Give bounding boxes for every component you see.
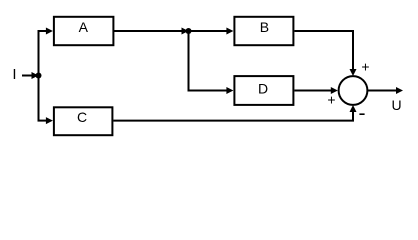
arrowhead into block D (226, 87, 233, 94)
wire block D output to summing junction left (294, 90, 332, 92)
arrowhead into block B (226, 28, 233, 35)
arrowhead into node J1 (32, 72, 39, 79)
node J2 junction dot (186, 28, 192, 34)
svg-text:+: + (361, 59, 369, 75)
wire block A output to node J2 (114, 30, 183, 32)
svg-text:A: A (79, 19, 89, 35)
wire vertical trunk from J1 up and down (38, 31, 40, 121)
svg-text:C: C (77, 109, 87, 125)
arrowhead into summing junction left (331, 87, 338, 94)
arrowhead into block A (46, 28, 53, 35)
wire summing junction to output U (368, 90, 397, 92)
arrowhead output (396, 87, 403, 94)
block D (234, 76, 293, 105)
wire input I to node J1 (22, 75, 33, 77)
svg-text:+: + (327, 92, 335, 108)
wire J1 to block A (38, 30, 48, 32)
block C (54, 107, 113, 135)
svg-text:I: I (12, 66, 16, 83)
arrowhead into block C (46, 117, 53, 124)
node J1 junction dot (36, 73, 42, 79)
wire block C output along bottom and up to summing junction (113, 111, 353, 121)
arrowhead into summing junction top (350, 69, 357, 76)
wire J2 to block B (189, 30, 229, 32)
svg-text:U: U (391, 97, 401, 113)
wire J2 down and right to block D (189, 31, 229, 91)
svg-text:D: D (258, 81, 268, 97)
block A (54, 17, 114, 45)
wire J1 to block C (38, 120, 48, 122)
summing junction S1 (339, 76, 368, 105)
wire block B output down to summing junction top (294, 31, 353, 71)
block B (234, 17, 293, 45)
svg-text:B: B (260, 19, 269, 35)
label minus sign at bottom input (359, 113, 364, 115)
arrowhead into summing junction bottom (350, 105, 357, 112)
arrowhead into node J2 (182, 28, 189, 35)
